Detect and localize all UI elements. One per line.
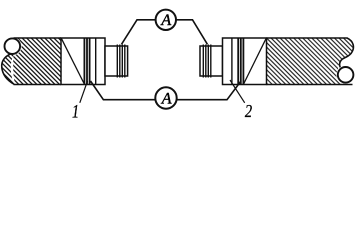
svg-text:A: A xyxy=(160,12,171,29)
right shaft break circle xyxy=(338,67,354,83)
wire top-left xyxy=(122,20,156,45)
svg-text:2: 2 xyxy=(245,101,252,121)
right coupling body xyxy=(223,38,267,85)
left shaft top edge xyxy=(14,37,62,39)
right stub shaft xyxy=(200,46,223,76)
left collar rings (part 1) xyxy=(83,38,85,84)
left stub shaft xyxy=(105,46,128,76)
left coupling body xyxy=(61,38,105,85)
left shaft (hatched, S-break at left end) xyxy=(13,38,61,85)
svg-text:A: A xyxy=(161,91,172,108)
svg-text:1: 1 xyxy=(72,102,79,123)
left shaft bottom edge xyxy=(14,84,62,86)
right break lobe outline xyxy=(340,38,354,67)
right slip rings xyxy=(202,45,204,78)
left coupling diagonal xyxy=(62,39,85,84)
white margin around left break circle xyxy=(3,37,22,56)
left break lobe (hatched blob) xyxy=(2,53,15,85)
ammeter bottom U2 xyxy=(155,87,176,108)
ammeter top U1 xyxy=(156,10,176,30)
right coupling diagonal xyxy=(244,39,266,84)
right shaft (hatched, S-break at right end) xyxy=(267,38,354,85)
wire bottom-right xyxy=(177,81,241,100)
right shaft top edge xyxy=(267,37,348,39)
right collar rings (part 2) xyxy=(231,38,233,84)
left slip rings xyxy=(116,45,118,78)
leader for label 1 xyxy=(80,81,88,103)
right shaft bottom edge xyxy=(267,84,353,86)
wire bottom-left xyxy=(91,81,156,100)
leader for label 2 xyxy=(230,80,245,103)
white margin around right break circle xyxy=(336,66,355,85)
left break lobe outline xyxy=(2,52,15,84)
wire top-right xyxy=(176,20,207,45)
left shaft break circle xyxy=(5,38,21,54)
